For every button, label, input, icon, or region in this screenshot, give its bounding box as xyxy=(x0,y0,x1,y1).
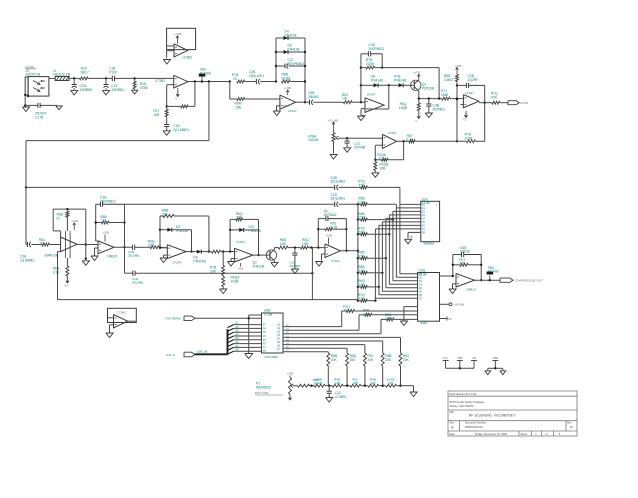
svg-text:+V2B: +V2B xyxy=(413,71,420,75)
svg-text:10B: 10B xyxy=(380,166,387,170)
svg-text:-V2B: -V2B xyxy=(238,267,244,271)
svg-text:-V: -V xyxy=(415,119,418,123)
svg-text:GATE: GATE xyxy=(520,101,528,105)
svg-text:+V2B: +V2B xyxy=(72,219,79,223)
svg-text:Sheet: Sheet xyxy=(521,433,528,436)
svg-text:LF347: LF347 xyxy=(367,92,376,96)
svg-text:+V2B: +V2B xyxy=(103,231,110,235)
svg-text:LM13B: LM13B xyxy=(308,138,319,142)
svg-text:2ELMB1: 2ELMB1 xyxy=(128,253,140,257)
svg-text:15B: 15B xyxy=(235,105,242,109)
svg-text:SIG -S: SIG -S xyxy=(166,353,175,357)
svg-text:2(L)MBE1: 2(L)MBE1 xyxy=(20,258,35,262)
svg-text:2(E)LMB1: 2(E)LMB1 xyxy=(330,180,345,184)
svg-text:P109: P109 xyxy=(109,71,117,75)
svg-text:LT347: LT347 xyxy=(331,259,340,263)
svg-text:2N2P5B21: 2N2P5B21 xyxy=(368,47,384,51)
svg-text:20K: 20K xyxy=(385,358,392,362)
svg-text:2N4BE1: 2N4BE1 xyxy=(289,264,301,268)
svg-text:PN513B: PN513B xyxy=(422,86,435,90)
svg-text:10MRB0: 10MRB0 xyxy=(80,88,93,92)
svg-text:PN4148: PN4148 xyxy=(371,78,383,82)
svg-text:47B: 47B xyxy=(388,381,393,385)
svg-text:4.7MB1: 4.7MB1 xyxy=(335,395,347,399)
svg-text:LT347: LT347 xyxy=(465,91,474,95)
svg-text:+V2B: +V2B xyxy=(284,86,291,90)
svg-text:+V2B: +V2B xyxy=(454,64,461,68)
svg-text:Document Number: Document Number xyxy=(465,422,486,425)
svg-text:2N412B: 2N412B xyxy=(252,264,265,268)
svg-text:10B: 10B xyxy=(317,381,322,385)
svg-text:10MRB1: 10MRB1 xyxy=(111,88,124,92)
svg-text:104B7: 104B7 xyxy=(444,78,454,82)
svg-text:of: of xyxy=(545,433,547,436)
svg-text:C6B_1B: C6B_1B xyxy=(197,350,208,354)
svg-text:1MB: 1MB xyxy=(441,93,449,97)
svg-text:U5A: U5A xyxy=(283,104,289,108)
svg-text:Rev: Rev xyxy=(567,422,572,425)
svg-text:B4B1: B4B1 xyxy=(421,321,428,325)
svg-text:Friday, November 10, 2000: Friday, November 10, 2000 xyxy=(475,432,508,436)
svg-text:3.3B: 3.3B xyxy=(53,270,61,274)
svg-text:51: 51 xyxy=(57,216,61,220)
svg-text:-V: -V xyxy=(175,97,178,101)
svg-text:VCC: VCC xyxy=(443,356,449,360)
svg-text:Size: Size xyxy=(449,422,454,425)
svg-text:10B: 10B xyxy=(352,381,357,385)
svg-text:20K: 20K xyxy=(350,358,357,362)
svg-text:TOUTER66: TOUTER66 xyxy=(165,317,181,321)
svg-text:EGD Electronics Corp: EGD Electronics Corp xyxy=(450,392,478,396)
svg-text:PN414B: PN414B xyxy=(193,259,206,263)
svg-text:47B5: 47B5 xyxy=(140,86,148,90)
svg-text:+V2B: +V2B xyxy=(175,32,182,36)
svg-text:LF3B2: LF3B2 xyxy=(182,55,192,59)
svg-text:PN4148: PN4148 xyxy=(285,33,297,37)
svg-text:-V2: -V2 xyxy=(64,284,69,288)
svg-text:B: B xyxy=(451,426,453,430)
svg-text:47B: 47B xyxy=(491,96,498,100)
svg-text:COMPRESSOR_OUT: COMPRESSOR_OUT xyxy=(514,279,543,283)
svg-text:Sandy, Utah 84070: Sandy, Utah 84070 xyxy=(450,404,474,408)
svg-text:2(B)PMB21: 2(B)PMB21 xyxy=(288,62,305,66)
svg-text:20K: 20K xyxy=(210,269,217,273)
svg-text:GB4415B: GB4415B xyxy=(44,254,58,258)
svg-text:+V2B: +V2B xyxy=(287,372,294,376)
svg-text:VB: VB xyxy=(472,356,476,360)
svg-text:LT347: LT347 xyxy=(118,311,127,315)
svg-text:Date:: Date: xyxy=(449,433,455,436)
svg-text:680.7: 680.7 xyxy=(81,71,89,75)
svg-text:LF347: LF347 xyxy=(173,261,182,265)
svg-text:+5V MB: +5V MB xyxy=(454,303,464,307)
svg-text:+V2B: +V2B xyxy=(326,234,333,238)
svg-text:2ELMB1: 2ELMB1 xyxy=(132,281,144,285)
svg-text:C17B: C17B xyxy=(35,115,44,119)
svg-text:LT347: LT347 xyxy=(388,131,397,135)
svg-text:LMB13: LMB13 xyxy=(107,255,117,259)
svg-text:103B: 103B xyxy=(231,279,240,283)
svg-text:14B: 14B xyxy=(334,381,339,385)
svg-text:LF347: LF347 xyxy=(236,240,245,244)
svg-text:20K: 20K xyxy=(367,358,374,362)
svg-text:Title: Title xyxy=(449,411,454,414)
svg-text:LT3B3: LT3B3 xyxy=(155,79,165,83)
svg-text:1B: 1B xyxy=(410,235,413,239)
svg-text:BOX TRIA: BOX TRIA xyxy=(255,391,269,395)
svg-text:20K: 20K xyxy=(331,358,338,362)
svg-text:1JE: 1JE xyxy=(342,97,348,101)
svg-text:2N7MB: 2N7MB xyxy=(354,146,366,150)
svg-text:PN4148: PN4148 xyxy=(288,47,300,51)
svg-text:VBB: VBB xyxy=(457,356,463,360)
svg-text:LF347: LF347 xyxy=(288,109,297,113)
svg-text:2(E)LMB1: 2(E)LMB1 xyxy=(330,197,345,201)
svg-text:10QB: 10QB xyxy=(399,106,408,110)
svg-text:LMB13: LMB13 xyxy=(466,288,476,292)
svg-text:RF-16 (SHOW) - INCOMP/DET: RF-16 (SHOW) - INCOMP/DET xyxy=(469,414,515,418)
svg-text:20K: 20K xyxy=(403,358,410,362)
svg-text:2Q2RF: 2Q2RF xyxy=(468,78,479,82)
svg-text:PN414B: PN414B xyxy=(394,78,407,82)
svg-text:2(E)LUB-1: 2(E)LUB-1 xyxy=(249,74,265,78)
svg-text:11B: 11B xyxy=(370,381,375,385)
svg-text:PBB: PBB xyxy=(493,356,499,360)
svg-text:A4: A4 xyxy=(570,425,574,429)
svg-text:2N7ME1: 2N7ME1 xyxy=(433,107,446,111)
svg-text:74HC4094: 74HC4094 xyxy=(264,355,278,359)
svg-text:05506246.001: 05506246.001 xyxy=(465,425,483,429)
svg-text:2(L)-MBE1: 2(L)-MBE1 xyxy=(173,128,189,132)
svg-text:2BUM1: 2BUM1 xyxy=(308,95,319,99)
svg-text:WM30B22: WM30B22 xyxy=(256,385,272,389)
svg-text:+5V_BB: +5V_BB xyxy=(328,118,338,122)
svg-text:B2: B2 xyxy=(449,317,453,321)
svg-text:B4BBB1: B4BBB1 xyxy=(424,241,435,245)
svg-text:-V2: -V2 xyxy=(463,118,468,122)
svg-text:10B: 10B xyxy=(153,113,160,117)
